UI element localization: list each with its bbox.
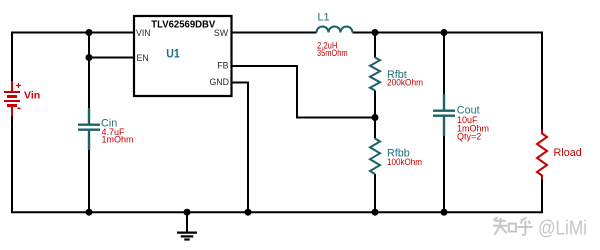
- svg-text:-: -: [17, 101, 21, 115]
- watermark: [493, 217, 533, 235]
- wire right vertical lower (Rload to bottom rail): [541, 179, 543, 213]
- inductor L1: [317, 27, 353, 33]
- node EN junction: [86, 54, 93, 61]
- node bottom rail ground: [184, 209, 191, 216]
- wire Cout branch upper: [443, 33, 445, 111]
- svg-text:GND: GND: [209, 77, 229, 87]
- svg-text:Qty=2: Qty=2: [457, 131, 481, 141]
- resistor Rload: [537, 130, 547, 180]
- wire Rfbt branch top: [374, 33, 376, 58]
- wire FB pin to feedback node: [232, 66, 376, 118]
- resistor Rfbt: [370, 58, 380, 91]
- svg-text:SW: SW: [214, 28, 229, 38]
- wire left vertical lower (battery - to bottom rail): [11, 116, 13, 214]
- wire Cin branch upper (top rail to Cin): [88, 33, 90, 125]
- wire L1 to right corner: [353, 32, 544, 34]
- wire Cout branch lower: [443, 116, 445, 213]
- wire FB node to Rfbb: [374, 118, 376, 139]
- op-amp U1 IC body TLV62569DBV: [134, 16, 232, 96]
- capacitor Cout: [433, 94, 455, 136]
- node bottom rail Rfbb: [372, 209, 379, 216]
- capacitor Cin: [78, 108, 100, 150]
- wire GND pin to bottom rail: [232, 83, 249, 213]
- node bottom rail Cout: [441, 209, 448, 216]
- svg-text:VIN: VIN: [136, 28, 151, 38]
- node top rail Cin: [86, 29, 93, 36]
- svg-text:100kOhm: 100kOhm: [387, 157, 422, 167]
- wire left vertical upper (top rail to battery +): [11, 32, 13, 82]
- wire SW pin to L1: [232, 32, 317, 34]
- wire Cin branch lower (Cin to bottom rail): [88, 130, 90, 213]
- wire EN pin: [89, 57, 134, 59]
- battery V1 Vin source: [4, 81, 20, 117]
- svg-text:@LiMi: @LiMi: [538, 218, 587, 240]
- svg-text:35mOhm: 35mOhm: [317, 48, 348, 58]
- svg-text:Vin: Vin: [24, 90, 40, 102]
- wire right vertical upper (to Rload): [541, 32, 543, 131]
- svg-text:EN: EN: [137, 53, 149, 63]
- node FB junction: [372, 114, 379, 121]
- svg-text:L1: L1: [318, 12, 330, 24]
- node top rail Rfbt: [372, 29, 379, 36]
- wire top rail left (Vin+ to VIN pin): [12, 32, 134, 34]
- svg-text:FB: FB: [217, 61, 228, 71]
- svg-text:TLV62569DBV: TLV62569DBV: [151, 18, 215, 30]
- svg-text:Rload: Rload: [554, 147, 582, 159]
- ground: [177, 212, 197, 239]
- wire Rfbt to FB node: [374, 91, 376, 118]
- node bottom rail GND pin: [245, 209, 252, 216]
- node bottom rail Cin: [86, 209, 93, 216]
- svg-text:U1: U1: [166, 49, 180, 61]
- svg-text:200kOhm: 200kOhm: [387, 78, 423, 88]
- svg-text:1mOhm: 1mOhm: [102, 135, 134, 145]
- resistor Rfbb: [370, 139, 380, 174]
- svg-text:+: +: [16, 81, 22, 92]
- wire Rfbb to bottom rail: [374, 174, 376, 212]
- wire bottom rail: [12, 211, 542, 213]
- node top rail Cout: [441, 29, 448, 36]
